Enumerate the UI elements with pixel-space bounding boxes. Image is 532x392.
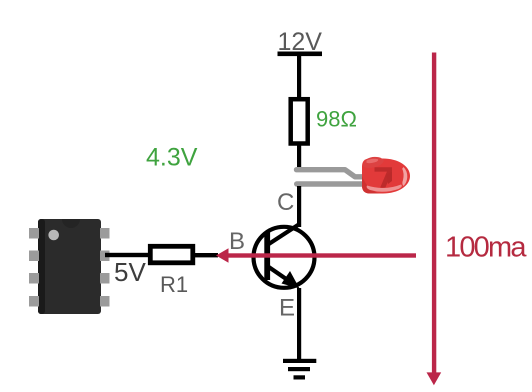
power rail 12V	[278, 52, 323, 57]
node label 5V	[114, 257, 146, 287]
value label 98Ω	[316, 107, 357, 132]
svg-text:5V: 5V	[114, 257, 146, 287]
svg-text:E: E	[279, 295, 295, 322]
svg-text:C: C	[277, 189, 294, 216]
resistor R1	[150, 246, 193, 262]
label R1	[160, 272, 188, 297]
wire resistor to LED anode lead	[297, 144, 301, 169]
label 100ma	[445, 231, 527, 263]
wire emitter to ground	[297, 288, 301, 360]
svg-text:R1: R1	[160, 272, 188, 297]
node label 4.3V	[146, 144, 198, 172]
pin label C	[277, 189, 294, 216]
node 12V label	[278, 28, 323, 56]
LED D1 anode lead	[297, 170, 366, 177]
collector current arrow (red, vertical pointing down)	[427, 53, 442, 386]
resistor 98Ω	[291, 99, 308, 143]
svg-text:98Ω: 98Ω	[316, 107, 357, 132]
LED D1 body	[362, 157, 410, 194]
LED D1 cathode lead	[294, 181, 366, 186]
wire IC pin to R1	[105, 253, 148, 257]
wire rail to resistor	[297, 56, 301, 99]
wire R1 to base arrow	[195, 253, 218, 257]
transistor Q1 emitter stroke with arrow	[268, 267, 300, 289]
transistor Q1 base bar	[264, 232, 270, 281]
svg-text:100ma: 100ma	[445, 231, 527, 263]
current arrow into base (red, pointing left)	[216, 248, 416, 262]
pin label B	[229, 228, 245, 255]
svg-text:4.3V: 4.3V	[146, 144, 198, 172]
IC U1 pins left	[29, 228, 39, 307]
pin label E	[279, 295, 295, 322]
wire LED cathode to collector	[297, 186, 301, 227]
IC U1 body	[38, 219, 101, 314]
transistor Q1 circle	[254, 227, 315, 288]
transistor Q1 collector stroke	[268, 224, 300, 245]
svg-text:B: B	[229, 228, 245, 255]
ground	[283, 359, 316, 380]
IC U1 pins right	[100, 228, 110, 307]
